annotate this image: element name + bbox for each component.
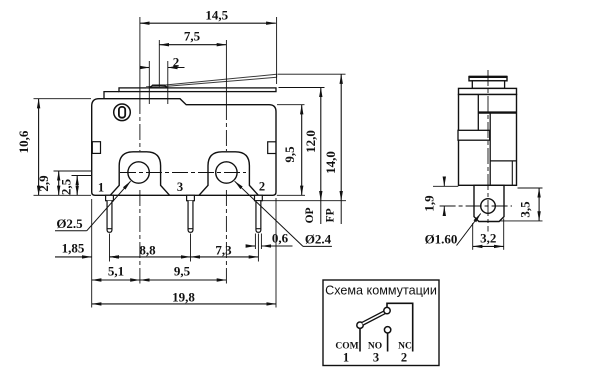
- svg-text:3,2: 3,2: [480, 231, 496, 246]
- svg-text:19,8: 19,8: [172, 289, 195, 304]
- svg-text:3,5: 3,5: [518, 201, 533, 218]
- svg-text:2: 2: [401, 351, 407, 365]
- svg-text:14,0: 14,0: [323, 151, 338, 174]
- svg-text:14,5: 14,5: [205, 7, 228, 22]
- svg-text:1: 1: [98, 181, 104, 195]
- svg-text:9,5: 9,5: [282, 146, 297, 163]
- svg-text:OP: OP: [304, 207, 316, 223]
- svg-text:Ø1.60: Ø1.60: [425, 231, 458, 246]
- svg-text:0,6: 0,6: [272, 230, 289, 245]
- svg-text:8,8: 8,8: [139, 242, 156, 257]
- svg-text:3: 3: [373, 351, 379, 365]
- svg-text:9,5: 9,5: [174, 264, 191, 279]
- svg-text:2,9: 2,9: [36, 175, 51, 192]
- svg-text:7,5: 7,5: [184, 29, 201, 44]
- svg-text:2: 2: [173, 54, 180, 69]
- svg-text:Схема коммутации: Схема коммутации: [325, 284, 437, 298]
- svg-text:7,3: 7,3: [215, 242, 232, 257]
- svg-text:2,5: 2,5: [59, 178, 74, 195]
- svg-text:2: 2: [259, 180, 265, 194]
- svg-text:1: 1: [343, 351, 349, 365]
- svg-text:Ø2.4: Ø2.4: [305, 231, 332, 246]
- svg-text:FP: FP: [324, 208, 336, 222]
- svg-text:Ø2.5: Ø2.5: [56, 216, 83, 231]
- svg-text:1,9: 1,9: [422, 195, 437, 212]
- svg-text:1,85: 1,85: [62, 240, 85, 255]
- svg-text:12,0: 12,0: [303, 130, 318, 153]
- svg-text:5,1: 5,1: [108, 264, 124, 279]
- svg-text:3: 3: [177, 180, 183, 194]
- svg-text:10,6: 10,6: [16, 130, 31, 153]
